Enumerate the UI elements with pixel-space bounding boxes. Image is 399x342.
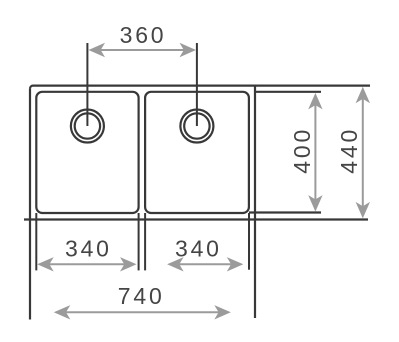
360 right extension line down to right drain center	[196, 43, 198, 126]
dimension 400 top arrowhead	[308, 93, 322, 110]
svg-text:360: 360	[120, 22, 167, 48]
svg-text:340: 340	[175, 236, 222, 262]
svg-text:340: 340	[65, 236, 112, 262]
360 left extension line down to left drain center	[86, 43, 88, 126]
dimension 340 right left arrowhead	[167, 257, 184, 271]
svg-text:740: 740	[118, 283, 165, 309]
dimension 440 top arrowhead	[356, 87, 370, 104]
right drain outer circle	[180, 110, 213, 143]
dimension 360 arrow line	[98, 49, 187, 51]
left drain outer circle	[71, 110, 104, 143]
sink rim right edge (extends down as 740 extension line)	[254, 86, 256, 318]
dimension 740 right arrowhead	[214, 305, 231, 319]
dimension 340 right arrow line	[176, 263, 234, 265]
dimension 360 right arrowhead	[180, 43, 197, 57]
340 divider left extension line	[138, 213, 140, 270]
sink rim top edge (extends right as 440 extension line)	[33, 84, 370, 86]
sink rim top-left rounded corner	[30, 86, 33, 89]
bowl bottom 400 extension line	[249, 211, 321, 213]
svg-text:400: 400	[289, 127, 315, 174]
dimension 340 left arrow line	[46, 263, 128, 265]
340 right-bowl right extension line	[248, 213, 250, 270]
dimension 740 left arrowhead	[54, 305, 71, 319]
sink rim left edge (extends down as 740 extension line)	[29, 89, 31, 320]
left drain inner circle	[75, 113, 100, 138]
dimension 400 bottom arrowhead	[308, 195, 322, 212]
dimension 360 left arrowhead	[89, 43, 106, 57]
340 divider right extension line	[144, 213, 146, 270]
dimension 740 arrow line	[63, 311, 221, 313]
right drain inner circle	[184, 113, 209, 138]
dimension 340 right right arrowhead	[227, 257, 244, 271]
dimension 400 arrow line	[314, 102, 316, 202]
bowl top 400 extension line	[255, 91, 321, 93]
dimension 440 arrow line	[362, 96, 364, 209]
dimension 340 left inward arrowhead	[120, 257, 137, 271]
left bowl	[36, 92, 138, 213]
dimension 340 left outward arrowhead	[37, 257, 54, 271]
340 left-bowl left extension line	[35, 213, 37, 270]
dimension 440 bottom arrowhead	[356, 202, 370, 219]
sink rim bottom edge (extends right as 440 extension line)	[24, 218, 368, 220]
svg-text:440: 440	[336, 127, 362, 174]
right bowl	[145, 92, 249, 213]
